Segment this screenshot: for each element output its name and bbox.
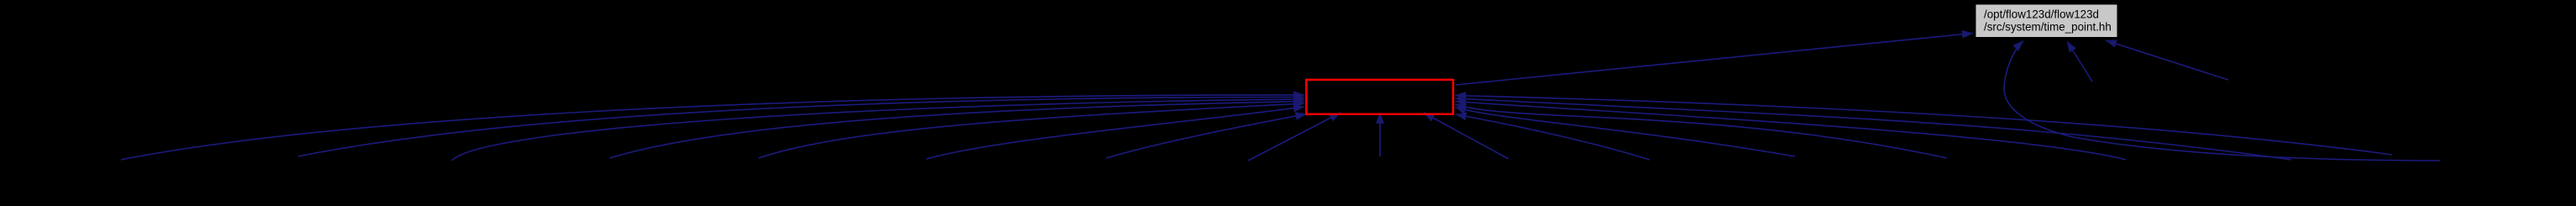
wire edge from node at (1643,186) vertical into bottom edge of red box [1379, 113, 1381, 156]
wire edge from node at (726,188) into left edge of red box [610, 102, 1304, 159]
wire edge from node at (2728,188) into right edge of red box [1456, 98, 2292, 160]
wire edge from red box to gray box U1 [1456, 34, 1973, 86]
wire edge from node at (1317,188) into bottom-left corner of red box [1106, 114, 1307, 159]
wire edge from node at (2318,186) into right edge of red box [1456, 104, 1948, 158]
wire edge from node at (2653,95) into bottom-right of gray box [2106, 40, 2228, 80]
wire edge from node at (2137,186) into right edge of red box [1456, 108, 1796, 157]
wire edge from node at (355,186) into left edge of red box [298, 97, 1304, 156]
node: current file box (gray) /opt/flow123d/flow123d/src/system/time_point.hh [1975, 4, 2117, 38]
svg-text:/src/system/time_point.hh: /src/system/time_point.hh [1984, 21, 2112, 34]
wire edge from node at (1964,190) into bottom-right corner of red box [1456, 114, 1650, 160]
wire edge from node at (2848,184) into right edge of red box [1456, 96, 2393, 156]
wire edge from node at (1796,189) into bottom edge of red box [1424, 113, 1508, 159]
wire edge from node at (903,188) into left edge of red box [758, 103, 1304, 158]
wire edge from node at (144,190) into left edge of red box [121, 95, 1304, 160]
wire edge from node at (538,191) into left edge of red box [452, 99, 1304, 161]
wire curved edge from node at (2905,191) arcing into bottom of gray box [2004, 41, 2440, 161]
wire edge from node at (2531,188) into right edge of red box [1456, 102, 2127, 161]
wire edge from node at (2491,97) into bottom of gray box [2067, 41, 2092, 82]
svg-text:/opt/flow123d/flow123d: /opt/flow123d/flow123d [1984, 8, 2099, 21]
node: red highlighted box (includer file, label black-on-black) [1306, 80, 1453, 114]
wire edge from node at (1103,189) into lower-left edge of red box [926, 107, 1304, 159]
wire edge from node at (1486,191) into bottom edge of red box [1248, 113, 1340, 161]
